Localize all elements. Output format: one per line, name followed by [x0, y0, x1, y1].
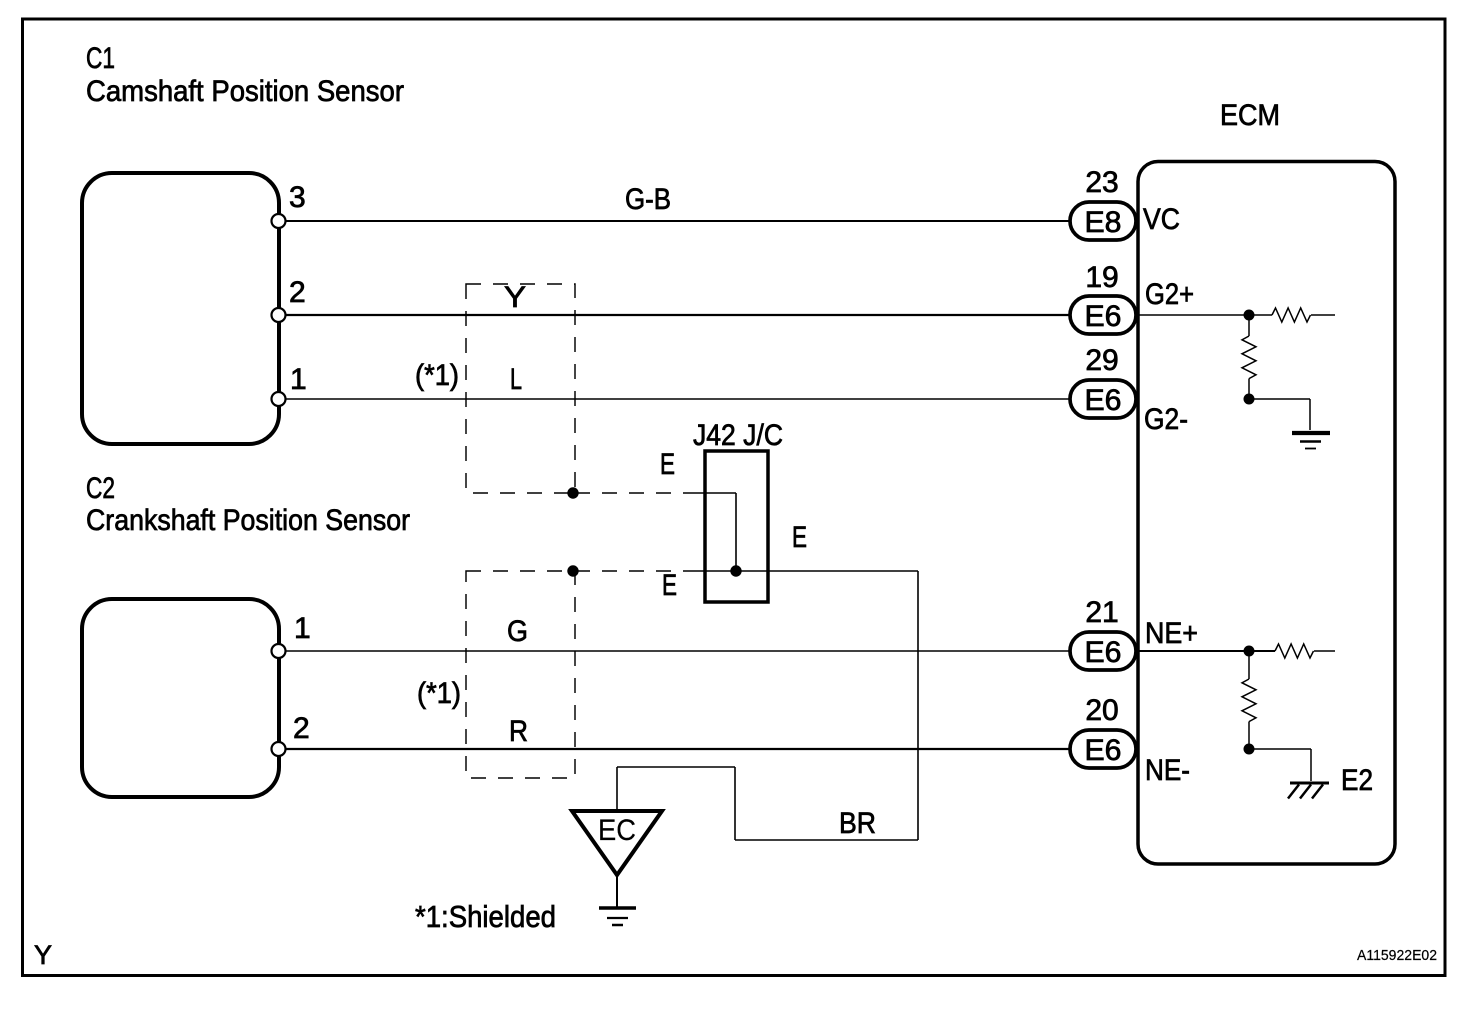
svg-text:2: 2 [289, 276, 306, 309]
svg-text:G2-: G2- [1144, 403, 1188, 436]
svg-text:C2: C2 [86, 472, 115, 505]
svg-text:(*1): (*1) [417, 677, 461, 710]
svg-text:23: 23 [1085, 166, 1118, 199]
svg-text:E: E [792, 521, 807, 554]
svg-text:Y: Y [504, 281, 526, 314]
svg-text:Y: Y [34, 940, 52, 970]
svg-text:NE-: NE- [1145, 754, 1190, 787]
svg-text:1: 1 [290, 363, 307, 396]
svg-text:G: G [507, 615, 528, 648]
svg-text:E: E [662, 569, 677, 602]
svg-text:VC: VC [1143, 203, 1180, 236]
svg-text:3: 3 [289, 181, 306, 214]
svg-text:E6: E6 [1085, 384, 1122, 417]
svg-text:*1:Shielded: *1:Shielded [415, 899, 556, 934]
svg-text:G-B: G-B [625, 183, 671, 216]
svg-text:EC: EC [598, 814, 636, 847]
svg-text:Crankshaft Position Sensor: Crankshaft Position Sensor [86, 504, 410, 537]
svg-text:G2+: G2+ [1145, 278, 1194, 311]
svg-text:Camshaft Position Sensor: Camshaft Position Sensor [86, 75, 404, 108]
svg-text:E: E [660, 448, 675, 481]
svg-text:20: 20 [1085, 694, 1118, 727]
svg-text:1: 1 [294, 612, 311, 645]
svg-text:C1: C1 [86, 42, 115, 75]
svg-text:E2: E2 [1341, 764, 1373, 797]
svg-text:E8: E8 [1085, 206, 1122, 239]
svg-text:J42 J/C: J42 J/C [693, 419, 783, 452]
svg-text:29: 29 [1085, 344, 1118, 377]
svg-text:(*1): (*1) [415, 359, 459, 392]
svg-text:A115922E02: A115922E02 [1357, 947, 1437, 964]
svg-text:21: 21 [1085, 596, 1118, 629]
svg-text:L: L [510, 363, 522, 396]
svg-text:2: 2 [293, 712, 310, 745]
svg-text:NE+: NE+ [1145, 617, 1198, 650]
svg-text:19: 19 [1085, 261, 1118, 294]
svg-text:BR: BR [839, 807, 876, 840]
svg-text:E6: E6 [1085, 300, 1122, 333]
svg-text:ECM: ECM [1220, 99, 1280, 132]
svg-text:E6: E6 [1085, 734, 1122, 767]
svg-text:E6: E6 [1085, 636, 1122, 669]
svg-text:R: R [509, 715, 528, 748]
